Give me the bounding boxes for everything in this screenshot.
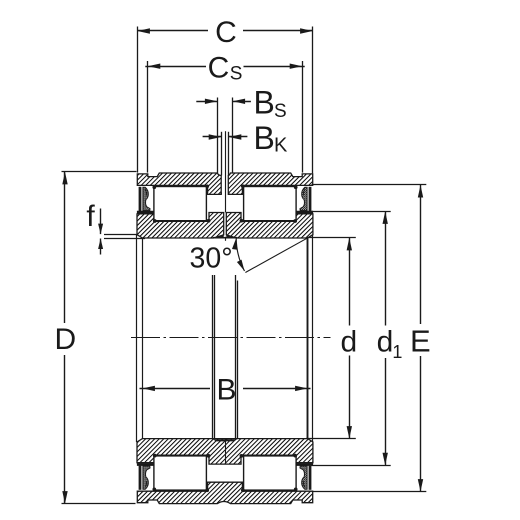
svg-text:S: S (274, 101, 287, 122)
svg-text:f: f (86, 200, 95, 233)
svg-text:D: D (54, 323, 76, 356)
svg-text:d: d (377, 325, 394, 358)
svg-text:d: d (340, 325, 357, 358)
svg-text:E: E (410, 324, 431, 359)
svg-text:C: C (215, 16, 237, 49)
svg-text:S: S (230, 64, 243, 85)
svg-text:B: B (216, 373, 236, 406)
svg-text:C: C (208, 52, 230, 85)
svg-text:B: B (254, 85, 275, 121)
svg-text:B: B (254, 120, 275, 156)
svg-text:K: K (274, 135, 288, 157)
svg-text:30°: 30° (190, 243, 233, 275)
svg-text:1: 1 (392, 342, 402, 362)
